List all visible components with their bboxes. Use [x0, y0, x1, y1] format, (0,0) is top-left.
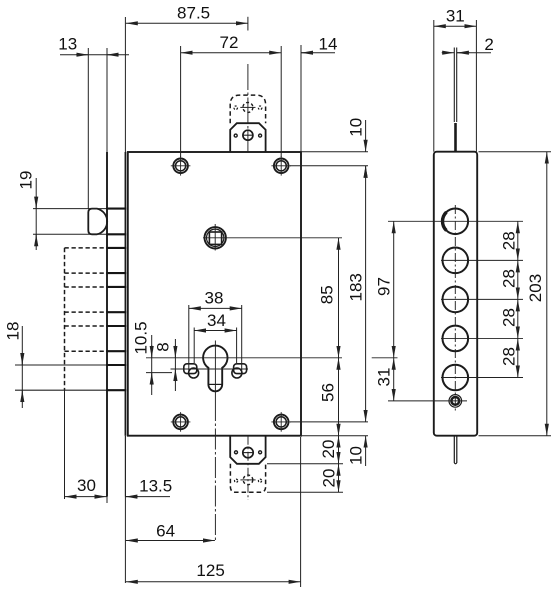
top bracket dashed arch	[230, 95, 265, 123]
svg-text:125: 125	[196, 561, 224, 580]
top bracket centerline	[247, 17, 249, 152]
side circle line 4	[441, 337, 523, 339]
faceplate right extension down	[124, 497, 126, 584]
svg-text:28: 28	[500, 231, 519, 250]
dimension 20 a	[319, 436, 339, 464]
side box top extension	[479, 151, 552, 153]
side pin circle 1	[442, 209, 468, 235]
svg-text:64: 64	[156, 521, 175, 540]
side circle line 1	[388, 220, 523, 222]
cylinder lug left	[184, 364, 199, 378]
ext bracket dashed bottom	[267, 491, 343, 493]
side circle line 2	[441, 259, 523, 261]
svg-text:72: 72	[220, 33, 239, 52]
svg-text:13: 13	[58, 35, 77, 54]
svg-text:14: 14	[319, 35, 338, 54]
svg-text:20: 20	[319, 440, 338, 459]
deadbolt 4 (solid) bottom line	[15, 389, 125, 391]
side 31 ext left	[433, 20, 435, 152]
faceplate bolt rungs	[106, 209, 126, 391]
svg-text:38: 38	[205, 289, 224, 308]
svg-text:30: 30	[77, 476, 96, 495]
dimension 8	[154, 339, 176, 391]
top arch dashed screw	[234, 102, 262, 112]
dimension 10 top	[347, 118, 366, 178]
side view body	[434, 152, 477, 436]
screw hole bottom-right	[271, 412, 291, 432]
top bracket screw	[234, 130, 261, 140]
euro cylinder keyhole	[203, 346, 227, 392]
ext line screw TR right	[290, 165, 368, 167]
svg-text:183: 183	[347, 273, 366, 301]
cylinder lug right	[232, 364, 247, 378]
latch extension line left x88	[87, 48, 89, 209]
bottom bracket centerline	[247, 436, 249, 500]
dimension 31 side-top	[434, 7, 477, 27]
dimension 56	[319, 358, 339, 436]
svg-text:19: 19	[17, 171, 36, 190]
side pin circle 4	[443, 326, 469, 352]
screw hole top-left	[171, 156, 191, 176]
dimension 38	[189, 289, 242, 309]
spindle v centerline	[214, 224, 216, 251]
ext line screw TL up	[180, 46, 182, 157]
dimension 97	[375, 221, 394, 357]
ext body bottom right	[302, 435, 368, 437]
side pin circle 5	[443, 365, 469, 391]
deadbolt 4 (solid) top line	[15, 364, 125, 366]
dimension 13 (latch throw)	[58, 35, 129, 55]
dimension 18	[4, 322, 23, 408]
screw hole bottom-left	[171, 412, 191, 432]
svg-text:10: 10	[347, 118, 366, 137]
dimension 28 #2	[500, 260, 519, 299]
34 ext lines	[194, 328, 236, 364]
ext line screw TR up	[280, 46, 282, 157]
lug centerline	[171, 368, 249, 370]
svg-text:28: 28	[500, 308, 519, 327]
side circle line 3	[441, 298, 523, 300]
bottom dashed screw	[235, 475, 262, 485]
svg-text:13.5: 13.5	[139, 476, 172, 495]
side small hole line	[388, 400, 467, 402]
svg-text:28: 28	[500, 347, 519, 366]
svg-text:31: 31	[374, 368, 393, 387]
latch bolt	[88, 209, 107, 235]
dimension 20 b	[320, 464, 339, 492]
dimension 64	[126, 521, 215, 540]
svg-text:8: 8	[154, 342, 173, 351]
svg-text:34: 34	[207, 311, 226, 330]
spindle h centerline to 85-dim	[203, 237, 342, 239]
dimension 28 #3	[500, 299, 519, 338]
dimension 14	[301, 35, 337, 54]
svg-text:203: 203	[526, 274, 545, 302]
dimension 19	[17, 171, 37, 250]
ext line screw BR right	[290, 421, 368, 423]
dimension 72	[181, 33, 282, 53]
dimension 34	[194, 311, 236, 331]
side vertical centerline	[454, 205, 456, 411]
side 31 ext right	[475, 20, 477, 152]
lock case body	[128, 152, 301, 436]
spindle follower	[205, 227, 226, 248]
latch top extension line	[33, 208, 124, 210]
svg-text:20: 20	[320, 469, 339, 488]
dimension 87.5	[126, 4, 248, 24]
dimension 10 bottom	[347, 436, 366, 466]
faceplate right edge	[124, 152, 126, 497]
body right edge extension up	[300, 45, 302, 152]
latch bottom extension line	[33, 233, 124, 235]
dimension 85	[318, 238, 339, 358]
cylinder v centerline	[214, 341, 216, 543]
svg-text:18: 18	[4, 322, 23, 341]
ext body top right	[302, 151, 368, 153]
side circle line 5	[441, 377, 523, 379]
svg-text:31: 31	[446, 7, 465, 26]
side small hole	[449, 395, 462, 408]
cylinder h tick right	[372, 357, 398, 359]
svg-text:97: 97	[375, 277, 394, 296]
dimension 10.5	[132, 321, 152, 395]
dimension 28 #1	[500, 221, 519, 260]
dimension 31 right	[374, 358, 393, 401]
side faceplate rod top thin	[454, 48, 456, 123]
side box bottom extension	[479, 435, 552, 437]
ext bracket solid bottom	[267, 463, 343, 465]
bottom bracket solid	[230, 436, 265, 464]
deadbolt left extension to 30-dim	[64, 390, 66, 499]
cylinder h centerline	[146, 357, 342, 359]
svg-text:2: 2	[484, 35, 493, 54]
side faceplate rod bottom	[454, 436, 457, 464]
faceplate right extension up	[124, 17, 126, 152]
bottom bracket dashed part	[230, 464, 265, 493]
lug circle tick	[146, 372, 172, 374]
svg-text:56: 56	[319, 383, 338, 402]
dimension 13.5	[125, 476, 172, 496]
side faceplate rod top dark	[454, 123, 457, 152]
deadbolts dashed (3) horizontals	[65, 248, 108, 351]
dimension 183	[347, 166, 366, 422]
38 ext lines	[189, 305, 242, 372]
bottom bracket screw	[235, 447, 262, 457]
svg-text:28: 28	[500, 269, 519, 288]
svg-text:87.5: 87.5	[177, 4, 210, 23]
dimension 2	[442, 35, 494, 54]
dimension 125	[126, 561, 301, 582]
dimension 30	[65, 476, 107, 497]
svg-text:10.5: 10.5	[132, 321, 151, 354]
svg-text:10: 10	[347, 446, 366, 465]
top bracket solid	[230, 123, 265, 152]
screw hole top-right	[271, 156, 291, 176]
dimension 203	[526, 152, 547, 436]
side pin circle 3	[443, 287, 469, 313]
deadbolt dashed left edge	[64, 248, 66, 390]
dimension 28 #4	[500, 338, 519, 377]
body right edge extension down	[300, 437, 302, 587]
side pin circle 2	[443, 248, 469, 274]
svg-text:85: 85	[318, 285, 337, 304]
faceplate left edge	[106, 48, 108, 503]
